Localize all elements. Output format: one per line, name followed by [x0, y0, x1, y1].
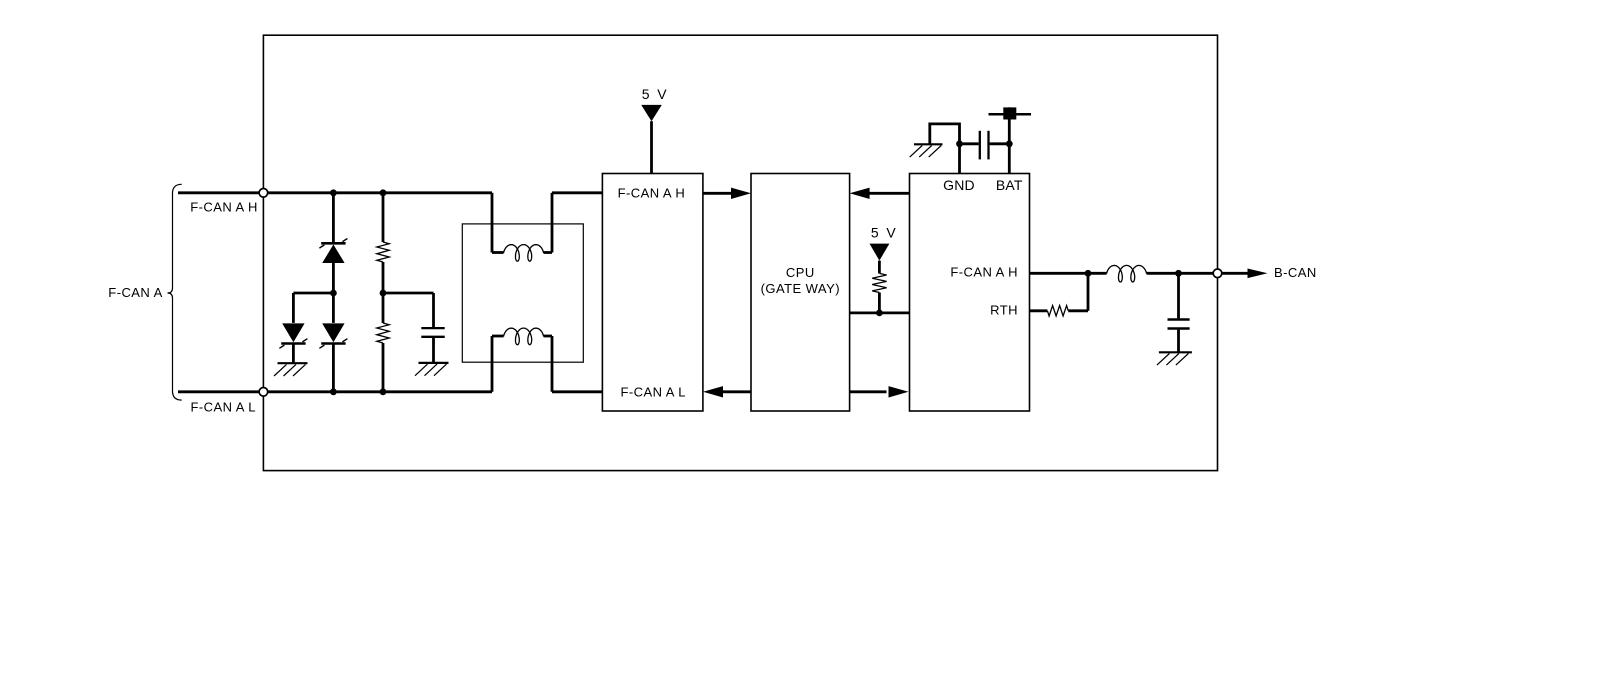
svg-text:F-CAN A H: F-CAN A H — [190, 199, 258, 214]
svg-text:5 V: 5 V — [871, 225, 897, 241]
svg-text:F-CAN A: F-CAN A — [108, 285, 162, 300]
svg-text:F-CAN A H: F-CAN A H — [618, 185, 686, 200]
svg-text:B-CAN: B-CAN — [1274, 265, 1317, 280]
svg-text:RTH: RTH — [990, 303, 1018, 318]
svg-text:5 V: 5 V — [642, 86, 668, 102]
svg-text:F-CAN A L: F-CAN A L — [621, 385, 686, 400]
svg-text:F-CAN A H: F-CAN A H — [950, 265, 1018, 280]
svg-text:(GATE WAY): (GATE WAY) — [761, 281, 840, 296]
svg-text:GND: GND — [943, 177, 975, 193]
svg-text:F-CAN A L: F-CAN A L — [191, 400, 256, 415]
svg-text:BAT: BAT — [996, 177, 1023, 193]
svg-text:CPU: CPU — [786, 265, 815, 280]
